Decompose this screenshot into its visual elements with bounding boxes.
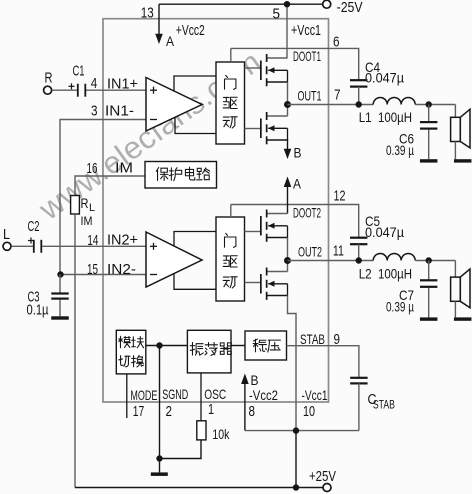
wire C5 to OUT2 [358, 244, 360, 260]
capacitor C7 [420, 279, 437, 288]
svg-text:A: A [293, 176, 302, 192]
wire DOOT2 pin 12 to C5 [231, 205, 359, 238]
label C3 [28, 289, 40, 306]
svg-text:0.39 µ: 0.39 µ [386, 142, 414, 158]
svg-text:0.047µ: 0.047µ [365, 70, 404, 86]
value 0.1u C3 [27, 302, 49, 319]
wire C4 to OUT1 [358, 87, 360, 105]
label C7 [399, 287, 414, 303]
pin 17 number [133, 403, 145, 420]
svg-text:17: 17 [133, 403, 145, 420]
wire L input to pin 14 IN2+ [11, 245, 146, 247]
svg-text:0.39 µ: 0.39 µ [386, 299, 414, 315]
wire C7 leads [428, 261, 430, 318]
wire +25V bottom rail [75, 487, 323, 489]
wire Q3 source / Q4 drain to OUT2 node [287, 238, 289, 272]
pin 13 number [141, 5, 154, 22]
wire top supply rail [159, 3, 323, 5]
svg-text:IN1-: IN1- [105, 103, 134, 120]
pin label SGND [162, 386, 188, 402]
svg-text:B: B [251, 372, 259, 388]
resistor R_LIM [71, 196, 80, 215]
pin label IN1+ [107, 76, 138, 93]
pin 8 number [249, 403, 256, 420]
net B arrow below Q2 [284, 139, 292, 159]
wire SGND ground stem [159, 459, 161, 473]
wire op-amp1 to gate driver 1 (top) [174, 76, 216, 91]
svg-text:L2: L2 [359, 266, 372, 282]
label -25V [337, 0, 363, 16]
svg-text:-25V: -25V [337, 0, 363, 16]
value 10k [212, 426, 230, 442]
pin label DOOT1 [293, 48, 321, 64]
junction C5/OUT2 [356, 257, 362, 263]
svg-text:13: 13 [141, 5, 154, 22]
pin 5 number [273, 6, 281, 23]
value 0.047u C5 [365, 224, 404, 240]
svg-text:OSC: OSC [204, 386, 226, 402]
junction SGND node [156, 342, 162, 348]
svg-text:IM: IM [115, 160, 133, 177]
wire C_STAB lower lead [358, 383, 360, 430]
op-amp U1B [146, 232, 202, 287]
pin 16 number [87, 160, 98, 177]
speaker 1 [451, 109, 470, 148]
inductor L1 [373, 98, 415, 105]
svg-text:4: 4 [91, 75, 98, 92]
pin label -Vcc1 [302, 387, 328, 403]
capacitor C_STAB [350, 377, 367, 385]
pin 15 number [87, 261, 98, 278]
svg-text:14: 14 [87, 232, 98, 249]
svg-text:100µH: 100µH [378, 266, 412, 282]
net label A (ch2) [293, 176, 302, 192]
pin 10 number [303, 403, 315, 420]
label C4 [365, 59, 380, 75]
value 0.047u C4 [365, 70, 404, 86]
wire STAB pin 9 to C_STAB [287, 346, 359, 378]
terminal +25V [323, 484, 331, 492]
pin 7 number [334, 87, 341, 104]
label +Vcc2 [176, 22, 205, 39]
wire module switch to oscillator [146, 345, 188, 347]
transistor Q1 (high side ch1) [260, 54, 288, 86]
capacitor C5 [350, 237, 367, 246]
C1 polarity + [69, 83, 75, 89]
gate driver block 1 (door-drive) [216, 62, 245, 144]
op-amp U1A [146, 78, 202, 132]
net label B (ch1) [294, 145, 302, 161]
svg-text:+Vcc1: +Vcc1 [291, 22, 321, 39]
svg-text:+Vcc2: +Vcc2 [176, 22, 205, 39]
pin 14 number [87, 232, 98, 249]
value 100uH L1 [378, 109, 412, 125]
net label B (pin 8) [251, 372, 259, 388]
value 100uH L2 [378, 266, 412, 282]
inductor L2 [373, 254, 415, 261]
ground SGND [151, 472, 168, 476]
svg-text:IN2-: IN2- [107, 261, 136, 278]
svg-text:L: L [89, 202, 95, 214]
label C6 [399, 131, 414, 147]
ground C6 [420, 159, 438, 162]
label +Vcc1 [291, 22, 321, 39]
wire pin 2 SGND to ground [159, 346, 161, 459]
svg-text:3: 3 [91, 103, 98, 120]
pin 1 number [208, 401, 214, 418]
wire L1 to speaker 1 [415, 105, 455, 118]
capacitor C3 [51, 292, 68, 299]
terminal -25V [323, 0, 331, 8]
pin label OUT1 [298, 88, 322, 104]
capacitor C6 [420, 121, 437, 130]
svg-text:8: 8 [249, 403, 256, 420]
capacitor C1 [77, 84, 86, 97]
pin 17 MODE stub [126, 374, 128, 418]
oscillator block [187, 330, 231, 373]
wire gate lead Q4 [245, 282, 261, 284]
svg-text:IN2+: IN2+ [107, 232, 138, 249]
module switch block [116, 330, 146, 374]
svg-text:R: R [81, 195, 89, 211]
svg-text:0.047µ: 0.047µ [365, 224, 404, 240]
wire pin 10 to +25V rail [295, 431, 297, 488]
svg-text:C2: C2 [28, 218, 40, 235]
pin label OUT2 [298, 244, 322, 260]
junction C7 node [426, 257, 432, 263]
label C1 [73, 63, 85, 80]
protection circuit block [145, 162, 217, 189]
wire speaker 1 to ground [454, 142, 456, 160]
svg-text:A: A [166, 33, 175, 49]
pin label STAB [300, 331, 325, 347]
transistor Q4 (low side ch2) [260, 268, 288, 300]
transistor Q2 (low side ch1) [260, 112, 288, 144]
svg-text:L: L [3, 226, 10, 243]
pin 2 number [166, 403, 173, 420]
svg-text:15: 15 [87, 261, 98, 278]
ground speaker 1 [454, 159, 472, 162]
wire L2 to speaker 2 [415, 261, 455, 278]
svg-text:0.1µ: 0.1µ [27, 302, 49, 319]
svg-text:9: 9 [334, 331, 341, 348]
label R input [45, 70, 53, 87]
label L2 [359, 266, 372, 282]
svg-text:OUT2: OUT2 [298, 244, 322, 260]
wire 10k to SGND ground [160, 440, 202, 459]
wire Q1 source / Q2 drain to OUT1 node [287, 82, 289, 116]
label +25V [309, 468, 336, 485]
pin 6 number [333, 34, 340, 51]
terminal R input [44, 86, 52, 94]
transistor Q3 (high side ch2) [260, 210, 288, 242]
svg-text:6: 6 [333, 34, 340, 51]
junction pin 5 / top rail [284, 1, 290, 7]
pin label MODE [130, 387, 157, 403]
svg-text:11: 11 [333, 243, 344, 260]
wire gate lead Q2 [245, 128, 261, 130]
wire pin 16 IM to R_LIM [75, 176, 145, 196]
IC body outline [103, 19, 329, 402]
svg-text:100µH: 100µH [378, 109, 412, 125]
wire pin 3 IN1- to C3 node [60, 120, 146, 275]
svg-text:-Vcc2: -Vcc2 [249, 387, 278, 403]
terminal L input [3, 242, 11, 250]
junction C4/OUT1 [356, 101, 362, 107]
wire C3 leads [59, 275, 61, 317]
ground C7 [420, 317, 438, 320]
svg-text:STAB: STAB [373, 398, 395, 412]
junction OUT1 node [284, 101, 291, 108]
net A arrow above Q3 [284, 177, 292, 214]
svg-text:IN1+: IN1+ [107, 76, 138, 93]
pin label OSC [204, 386, 226, 402]
pin label -Vcc2 [249, 387, 278, 403]
svg-text:R: R [45, 70, 53, 87]
svg-text:C1: C1 [73, 63, 85, 80]
label C_STAB [368, 391, 395, 412]
net B arrow at pin 8 -Vcc2 [241, 374, 249, 431]
ground speaker 2 [454, 317, 472, 320]
net label A (top) [166, 33, 175, 49]
wire gate lead Q3 [245, 231, 261, 233]
label L1 [359, 109, 372, 125]
wire op-amp2 to gate driver 2 (bottom) [174, 274, 216, 290]
pin 12 number [334, 188, 346, 205]
C2 polarity + [28, 238, 34, 244]
wire op-amp2 to gate driver 2 (top) [174, 232, 216, 247]
wire speaker 2 to ground [454, 301, 456, 317]
wire gate lead Q1 [245, 67, 261, 69]
junction SGND ground [156, 455, 162, 461]
junction pin15/C3 [57, 271, 63, 277]
wire op-amp1 to gate driver 1 (bottom) [175, 117, 216, 134]
speaker 2 [451, 269, 470, 308]
pin label IM [115, 160, 133, 177]
svg-text:SGND: SGND [162, 386, 188, 402]
wire Q4 source to pin 10 -Vcc1 [288, 296, 297, 431]
svg-text:-Vcc1: -Vcc1 [302, 387, 328, 403]
net A arrow at pin 13 (+Vcc2) [155, 4, 163, 44]
wire pin 1 OSC to R 10k [200, 373, 202, 421]
pin label IN2- [107, 261, 136, 278]
svg-text:7: 7 [334, 87, 341, 104]
wire DOOT1 pin 6 to C4 [231, 48, 359, 80]
pin 3 number [91, 103, 98, 120]
label R_LIM [81, 195, 96, 228]
label L input [3, 226, 10, 243]
ground C3 [51, 316, 69, 319]
svg-text:DOOT2: DOOT2 [293, 205, 321, 221]
svg-text:L1: L1 [359, 109, 372, 125]
wire R input to pin 4 IN1+ [52, 89, 146, 91]
wire R_LIM to +25V rail [74, 214, 76, 488]
wire OUT1 pin 7 to L1 [288, 104, 374, 106]
svg-text:STAB: STAB [300, 331, 325, 347]
label C5 [365, 213, 380, 229]
svg-text:+25V: +25V [309, 468, 336, 485]
wire OUT2 pin 11 to L2 [288, 260, 374, 262]
wire gate driver 1 to DOOT1 [230, 48, 232, 62]
pin 4 number [91, 75, 98, 92]
svg-text:12: 12 [334, 188, 346, 205]
svg-text:IM: IM [81, 214, 93, 228]
junction +25V rail [293, 484, 299, 490]
label C2 [28, 218, 40, 235]
pin 9 number [334, 331, 341, 348]
wire C6 leads [428, 105, 430, 160]
pin label IN1- [105, 103, 134, 120]
wire pin 15 IN2- [61, 274, 146, 276]
wire pin 5 +Vcc1 to drain Q1 [286, 4, 288, 58]
value 0.39u C7 [386, 299, 414, 315]
gate driver block 2 (door-drive) [216, 217, 245, 301]
pin 11 number [333, 243, 344, 260]
pin label IN2+ [107, 232, 138, 249]
svg-text:MODE: MODE [130, 387, 157, 403]
wire gate driver 2 to DOOT2 [230, 205, 232, 218]
capacitor C2 [33, 240, 42, 253]
voltage regulator block [245, 331, 287, 360]
junction pin 10 / bus [293, 427, 299, 433]
svg-text:10k: 10k [212, 426, 230, 442]
svg-text:16: 16 [87, 160, 98, 177]
svg-text:1: 1 [208, 401, 214, 418]
pin label DOOT2 [293, 205, 321, 221]
capacitor C4 [350, 79, 367, 88]
value 0.39u C6 [386, 142, 414, 158]
junction OUT2 node [284, 257, 291, 264]
wire oscillator to regulator [231, 345, 245, 347]
svg-text:10: 10 [303, 403, 315, 420]
svg-text:5: 5 [273, 6, 281, 23]
junction C6 node [426, 101, 432, 107]
svg-text:OUT1: OUT1 [298, 88, 322, 104]
resistor 10k [197, 421, 206, 440]
svg-text:DOOT1: DOOT1 [293, 48, 321, 64]
wire -Vcc2/-Vcc1/C_STAB bus [245, 430, 359, 432]
svg-text:2: 2 [166, 403, 173, 420]
svg-text:B: B [294, 145, 302, 161]
